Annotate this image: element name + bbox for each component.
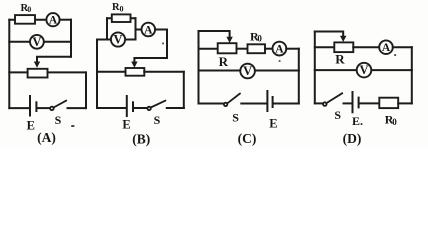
svg-text:E: E xyxy=(269,117,277,131)
wire: D top line to R xyxy=(315,46,335,48)
switch S (D) lever xyxy=(326,93,342,103)
svg-text:E: E xyxy=(122,118,130,132)
svg-text:0: 0 xyxy=(257,34,262,44)
wire: B rheostat line right xyxy=(144,71,184,73)
svg-text:V: V xyxy=(113,33,122,47)
resistor R0 (C) xyxy=(248,44,266,53)
wire: A rheostat line left xyxy=(9,71,27,73)
wire: C left rail xyxy=(198,31,200,104)
rheostat (A) xyxy=(28,69,48,78)
voltmeter V (C) xyxy=(240,64,255,79)
wire: D bottom wire left xyxy=(315,102,323,104)
wire: B battery to switch xyxy=(135,107,148,109)
wire: B jog to wiper xyxy=(134,58,167,63)
svg-text:S: S xyxy=(232,110,239,124)
battery E (B) long plate xyxy=(126,96,128,116)
wire: A left rail xyxy=(8,20,10,108)
wire: C battery to right rail xyxy=(274,103,299,105)
wire: B ammeter to right rail xyxy=(155,29,167,31)
wire: A upper right rail xyxy=(70,20,72,57)
wire: B lower right rail xyxy=(183,72,185,108)
noise dash between A and B xyxy=(71,125,74,127)
wire: B upper right rail xyxy=(166,30,168,59)
wire: C right rail xyxy=(298,49,300,104)
ammeter A (D) xyxy=(379,40,393,54)
rheostat (B) xyxy=(126,68,145,76)
wire: A lower right rail xyxy=(85,72,87,108)
wiper arrowhead (A) xyxy=(34,62,40,68)
battery E (A) short plate xyxy=(35,102,37,111)
svg-text:A: A xyxy=(275,43,284,55)
wire: C bottom wire left xyxy=(199,103,224,105)
wire: A battery to switch xyxy=(38,107,50,109)
wire: D R0 to right rail xyxy=(398,102,412,104)
ammeter A (C) xyxy=(273,42,287,56)
svg-text:E.: E. xyxy=(352,114,363,128)
wire: D right rail xyxy=(411,47,413,103)
wiper arrowhead (D) xyxy=(340,36,346,42)
switch S (B) pivot xyxy=(147,107,150,110)
resistor R0 (B) xyxy=(112,14,131,22)
wire: C voltmeter line xyxy=(199,70,299,72)
wire: D stub to wiper xyxy=(315,32,343,37)
switch S (C) pivot xyxy=(224,103,227,106)
wire: D R to ammeter xyxy=(353,46,379,48)
wire: A top wire left segment xyxy=(9,19,47,21)
svg-text:A: A xyxy=(382,42,391,54)
resistor R0 (D) xyxy=(379,98,398,108)
wiper arrowhead (C) xyxy=(226,37,232,43)
svg-text:0: 0 xyxy=(120,4,124,13)
svg-text:(B): (B) xyxy=(132,132,150,147)
noise dot in B right rail area xyxy=(162,43,164,45)
wire: A voltmeter line xyxy=(9,41,71,43)
wire: B parallel left connector xyxy=(106,18,108,39)
wire: C between R and R0 xyxy=(237,48,248,50)
wire: D ammeter to right rail xyxy=(393,46,412,48)
svg-text:A: A xyxy=(144,24,153,36)
wire: D left rail xyxy=(314,32,316,104)
svg-text:(A): (A) xyxy=(37,130,56,145)
battery E (A) long plate xyxy=(29,96,31,116)
battery E (B) short plate xyxy=(132,102,134,111)
ammeter A (A) xyxy=(46,13,59,26)
wire: B parallel right connector xyxy=(135,18,137,39)
wire: B rheostat line left xyxy=(97,71,126,73)
wire: B left rail xyxy=(96,40,98,109)
ammeter A (B) xyxy=(142,23,156,37)
switch S (B) lever xyxy=(151,101,166,108)
svg-text:S: S xyxy=(154,113,161,127)
rheostat R (C) xyxy=(218,43,237,53)
battery E (C) short plate xyxy=(272,97,274,107)
switch S (D) pivot xyxy=(323,102,327,106)
wire: C stub to wiper xyxy=(199,31,230,38)
wiper arrowhead (B) xyxy=(131,62,137,68)
svg-text:E: E xyxy=(27,119,35,133)
wire: B switch to right xyxy=(167,107,184,109)
battery E (C) long plate xyxy=(266,91,268,111)
resistor R0 (A) xyxy=(15,15,35,24)
svg-text:S: S xyxy=(334,108,341,122)
svg-text:A: A xyxy=(49,15,58,27)
wire: A switch to right xyxy=(68,107,87,109)
wire: C top line to R xyxy=(199,48,218,50)
svg-text:R: R xyxy=(335,51,345,66)
wire: A bottom wire left xyxy=(9,107,29,109)
svg-text:0: 0 xyxy=(392,117,397,127)
wire: C ammeter to right rail xyxy=(286,48,299,50)
wire: D voltmeter line xyxy=(315,69,412,71)
wire: C R0 to ammeter xyxy=(265,48,273,50)
noise dot in C below ammeter xyxy=(279,60,281,62)
svg-text:S: S xyxy=(55,113,62,127)
switch S (C) lever xyxy=(227,94,240,104)
switch S (A) lever xyxy=(54,101,67,108)
wire: D battery to R0 xyxy=(360,102,379,104)
voltmeter V (A) xyxy=(30,35,44,49)
svg-text:(D): (D) xyxy=(343,131,362,146)
svg-text:V: V xyxy=(243,64,252,78)
svg-text:(C): (C) xyxy=(238,131,257,146)
wire: A jog from right rail to wiper xyxy=(37,57,71,62)
wire: A rheostat line right xyxy=(48,71,87,73)
wire: C switch to battery xyxy=(241,103,266,105)
svg-text:V: V xyxy=(359,63,368,77)
battery E (D) short plate xyxy=(358,98,360,108)
svg-text:R: R xyxy=(219,54,229,69)
wire: B top branch xyxy=(107,17,136,19)
voltmeter V (B) xyxy=(111,32,125,46)
battery E (D) long plate xyxy=(352,92,354,112)
wire: B to ammeter xyxy=(136,29,142,31)
switch S (A) pivot xyxy=(50,107,54,111)
svg-text:0: 0 xyxy=(27,5,31,14)
voltmeter V (D) xyxy=(357,63,372,78)
wire: A top wire right segment xyxy=(59,19,71,21)
rheostat R (D) xyxy=(334,42,353,52)
svg-text:V: V xyxy=(32,35,41,49)
wire: B bottom wire left xyxy=(97,107,126,109)
noise dot in D near ammeter xyxy=(394,54,396,56)
wire: B voltmeter line xyxy=(97,39,136,41)
wire: D switch to battery xyxy=(344,102,352,104)
